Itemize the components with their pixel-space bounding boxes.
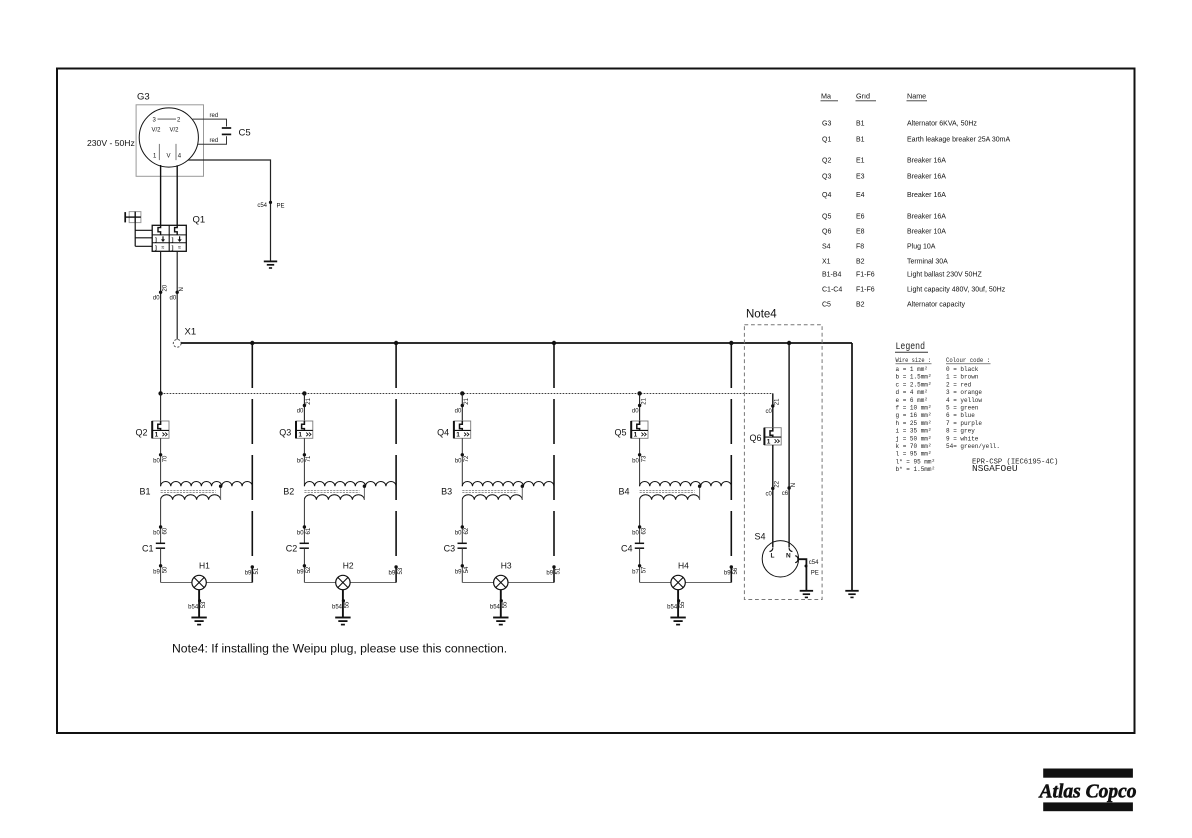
- svg-text:Breaker 16A: Breaker 16A: [907, 158, 946, 165]
- svg-text:55: 55: [503, 601, 509, 608]
- wire label 21 c0: [765, 398, 780, 415]
- svg-text:Q2: Q2: [135, 428, 147, 438]
- svg-text:d0: d0: [153, 296, 160, 302]
- wire label 55 b54 (lamp ground): [490, 601, 509, 611]
- wire Q1 right pole down to X1: [176, 251, 178, 339]
- svg-text:60: 60: [162, 527, 168, 534]
- svg-text:d0: d0: [632, 409, 639, 415]
- svg-text:b0: b0: [632, 459, 639, 465]
- svg-text:C1: C1: [142, 544, 154, 554]
- svg-text:V/2: V/2: [170, 128, 180, 134]
- svg-text:k = 70 mm²: k = 70 mm²: [896, 443, 932, 450]
- Q1 test button symbol: [125, 212, 141, 223]
- svg-text:N: N: [791, 483, 797, 487]
- earth leakage breaker Q1: [152, 215, 205, 252]
- wire label 73 b0: [632, 455, 647, 465]
- wire label N c6: [782, 483, 797, 497]
- wire label 21 d0 (branch 2 feed): [297, 397, 312, 414]
- svg-text:9 = white: 9 = white: [946, 435, 979, 442]
- svg-text:l = 95 mm²: l = 95 mm²: [896, 451, 932, 458]
- svg-text:55: 55: [345, 601, 351, 608]
- svg-text:E6: E6: [856, 213, 865, 220]
- svg-text:6 = blue: 6 = blue: [946, 412, 975, 419]
- top bus wire (N): [181, 342, 852, 344]
- svg-text:Note4: Note4: [746, 309, 777, 321]
- svg-text:21: 21: [641, 397, 647, 404]
- svg-text:red: red: [210, 113, 219, 119]
- wire Q1 left pole down to bus junction: [160, 251, 162, 393]
- svg-text:b54: b54: [188, 605, 199, 611]
- svg-text:H4: H4: [678, 561, 689, 571]
- svg-text:Q3: Q3: [822, 174, 831, 181]
- svg-text:b* = 1.5mm²: b* = 1.5mm²: [896, 466, 936, 473]
- svg-text:H3: H3: [501, 561, 512, 571]
- svg-text:E3: E3: [856, 174, 865, 181]
- svg-text:V/2: V/2: [152, 128, 162, 134]
- svg-text:V: V: [167, 154, 171, 160]
- svg-text:54: 54: [464, 566, 470, 573]
- wire label 70 b0: [153, 455, 168, 465]
- svg-text:b9: b9: [245, 571, 252, 577]
- svg-text:red: red: [210, 138, 219, 144]
- capacitor C5: [222, 128, 251, 139]
- plug S4: [755, 532, 799, 578]
- svg-text:B1: B1: [856, 121, 865, 128]
- svg-text:Q6: Q6: [822, 228, 831, 235]
- svg-text:Light ballast 230V 50HZ: Light ballast 230V 50HZ: [907, 271, 982, 278]
- svg-text:54= green/yell.: 54= green/yell.: [946, 443, 1000, 450]
- wire label 61 b0: [297, 527, 312, 537]
- svg-text:d0: d0: [170, 296, 177, 302]
- svg-text:7 = purple: 7 = purple: [946, 420, 982, 427]
- svg-text:Alternator 6KVA, 50Hz: Alternator 6KVA, 50Hz: [907, 121, 977, 128]
- svg-text:]: ]: [172, 238, 174, 244]
- alternator G3: [136, 92, 203, 177]
- svg-text:Light capacity 480V, 30uf, 50H: Light capacity 480V, 30uf, 50Hz: [907, 286, 1006, 293]
- svg-text:b0: b0: [297, 531, 304, 537]
- svg-text:h = 25 mm²: h = 25 mm²: [896, 420, 932, 427]
- svg-text:b0: b0: [153, 531, 160, 537]
- wire label 63 b0: [632, 527, 647, 537]
- ground (bus right end): [845, 591, 858, 598]
- svg-text:b7: b7: [632, 570, 639, 576]
- ground (S4 PE): [800, 591, 813, 598]
- svg-text:PE: PE: [277, 204, 285, 210]
- breaker Q6: [749, 428, 781, 446]
- svg-text:230V - 50Hz: 230V - 50Hz: [87, 138, 135, 148]
- svg-text:4 = yellow: 4 = yellow: [946, 397, 982, 404]
- svg-text:H2: H2: [343, 561, 354, 571]
- wire bus to Q6: [772, 393, 774, 427]
- svg-text:73: 73: [641, 455, 647, 462]
- svg-text:Grıd: Grıd: [856, 92, 870, 101]
- svg-text:Q3: Q3: [279, 428, 291, 438]
- svg-text:d0: d0: [455, 409, 462, 415]
- svg-text:Plug 10A: Plug 10A: [907, 243, 936, 250]
- svg-text:Q4: Q4: [437, 428, 449, 438]
- svg-text:B2: B2: [283, 487, 294, 497]
- svg-text:a = 1 mm²: a = 1 mm²: [896, 366, 928, 373]
- svg-text:Q1: Q1: [193, 215, 206, 226]
- svg-text:Breaker 10A: Breaker 10A: [907, 228, 946, 235]
- svg-text:b0: b0: [153, 459, 160, 465]
- svg-text:≈: ≈: [162, 245, 165, 251]
- branch 3 circuit: [454, 341, 556, 625]
- wire label 57 b7: [632, 566, 647, 576]
- svg-text:8 = grey: 8 = grey: [946, 428, 975, 435]
- wire right end of bus down to ground: [851, 343, 853, 591]
- svg-text:b54: b54: [667, 605, 678, 611]
- svg-text:b54: b54: [490, 605, 501, 611]
- svg-text:S4: S4: [822, 243, 831, 250]
- svg-text:Q4: Q4: [822, 192, 831, 199]
- svg-text:l* = 95 mm²: l* = 95 mm²: [896, 458, 936, 465]
- wire S4 PE to ground: [799, 559, 807, 591]
- svg-text:21: 21: [464, 397, 470, 404]
- svg-text:G3: G3: [822, 121, 831, 128]
- wire label 53 b54 (lamp ground): [188, 601, 207, 611]
- svg-text:57: 57: [641, 566, 647, 573]
- svg-text:Note4: If installing the Weipu: Note4: If installing the Weipu plug, ple…: [172, 642, 507, 656]
- svg-text:d0: d0: [297, 409, 304, 415]
- svg-text:]: ]: [155, 238, 157, 244]
- svg-text:c = 2.5mm²: c = 2.5mm²: [896, 381, 932, 388]
- svg-text:b9: b9: [153, 570, 160, 576]
- svg-text:b9: b9: [724, 571, 731, 577]
- svg-text:S4: S4: [755, 532, 766, 542]
- wire label 62 b0: [455, 527, 470, 537]
- svg-text:Wire size :: Wire size :: [896, 357, 932, 364]
- svg-text:N: N: [786, 553, 791, 560]
- svg-text:B1-B4: B1-B4: [822, 271, 842, 278]
- svg-text:H1: H1: [199, 561, 210, 571]
- svg-text:20: 20: [162, 284, 168, 291]
- svg-text:Alternator capacity: Alternator capacity: [907, 301, 965, 308]
- svg-text:Name: Name: [907, 92, 926, 101]
- component table: [821, 92, 1011, 309]
- svg-text:e = 6 mm²: e = 6 mm²: [896, 397, 928, 404]
- branch 4 circuit: [631, 341, 733, 625]
- svg-text:Colour code :: Colour code :: [946, 357, 990, 364]
- wire label 55 b54 (lamp ground): [332, 601, 351, 611]
- wire label 51 b9 (return): [245, 567, 260, 577]
- svg-text:f = 10 mm²: f = 10 mm²: [896, 405, 932, 412]
- svg-text:2 = red: 2 = red: [946, 381, 972, 388]
- svg-text:B2: B2: [856, 258, 865, 265]
- svg-text:63: 63: [641, 527, 647, 534]
- page border frame: [57, 69, 1135, 734]
- svg-text:i = 35 mm²: i = 35 mm²: [896, 428, 932, 435]
- wire label 53 b9 (return): [389, 567, 404, 577]
- svg-text:N: N: [179, 287, 185, 291]
- second bus wire (dashed distribution): [161, 392, 773, 394]
- wire label 21 d0 (branch 3 feed): [455, 397, 470, 414]
- svg-text:Ma: Ma: [821, 92, 831, 101]
- svg-text:Q6: Q6: [749, 433, 761, 443]
- svg-text:Q5: Q5: [614, 428, 626, 438]
- svg-text:b54: b54: [332, 605, 343, 611]
- wire label 60 b0: [153, 527, 168, 537]
- svg-text:Atlas Copco: Atlas Copco: [1038, 782, 1137, 803]
- label c54 PE: [257, 201, 284, 210]
- svg-text:b = 1.5mm²: b = 1.5mm²: [896, 374, 932, 381]
- svg-text:NSGAFOeU: NSGAFOeU: [972, 463, 1018, 474]
- svg-text:b9: b9: [389, 571, 396, 577]
- svg-text:0 = black: 0 = black: [946, 366, 979, 373]
- svg-text:d = 4 mm²: d = 4 mm²: [896, 389, 928, 396]
- svg-text:B2: B2: [856, 301, 865, 308]
- svg-text:70: 70: [162, 455, 168, 462]
- svg-text:F1-F6: F1-F6: [856, 286, 875, 293]
- branch 2 circuit: [296, 341, 398, 625]
- wire G3 to PE ground: [188, 160, 271, 261]
- wire bus N to plug S4: [788, 343, 790, 548]
- svg-text:E8: E8: [856, 228, 865, 235]
- svg-text:Breaker 16A: Breaker 16A: [907, 192, 946, 199]
- svg-text:g = 16 mm²: g = 16 mm²: [896, 412, 932, 419]
- wire label 55 b54 (lamp ground): [667, 601, 686, 611]
- svg-text:B3: B3: [441, 487, 452, 497]
- svg-text:55: 55: [680, 601, 686, 608]
- svg-text:C5: C5: [822, 301, 831, 308]
- wire label N d0: [170, 287, 185, 301]
- Atlas Copco logo: [1038, 769, 1137, 812]
- svg-text:56: 56: [733, 567, 739, 574]
- svg-text:B4: B4: [618, 487, 629, 497]
- svg-text:b0: b0: [297, 459, 304, 465]
- svg-text:21: 21: [775, 398, 781, 405]
- svg-text:F8: F8: [856, 243, 864, 250]
- svg-text:3 = orange: 3 = orange: [946, 389, 982, 396]
- svg-text:5 = green: 5 = green: [946, 405, 979, 412]
- svg-text:22: 22: [775, 480, 781, 487]
- svg-text:b9: b9: [455, 570, 462, 576]
- svg-text:53: 53: [398, 567, 404, 574]
- svg-text:E4: E4: [856, 192, 865, 199]
- wire label 56 b9 (return): [724, 567, 739, 577]
- svg-text:C5: C5: [239, 128, 251, 139]
- svg-text:72: 72: [464, 455, 470, 462]
- svg-text:Earth leakage breaker 25A 30mA: Earth leakage breaker 25A 30mA: [907, 137, 1010, 144]
- svg-text:c0: c0: [765, 492, 772, 498]
- wire label 52 b9: [297, 566, 312, 576]
- svg-text:1 = brown: 1 = brown: [946, 374, 979, 381]
- wire G3 left pole to Q1: [160, 165, 162, 225]
- svg-text:X1: X1: [822, 258, 831, 265]
- svg-text:c54: c54: [257, 203, 267, 209]
- svg-text:F1-F6: F1-F6: [856, 271, 875, 278]
- svg-text:≈: ≈: [178, 245, 181, 251]
- svg-text:B1: B1: [139, 487, 150, 497]
- svg-text:j = 50 mm²: j = 50 mm²: [896, 435, 932, 442]
- wire label 50 b9: [153, 566, 168, 576]
- svg-text:B1: B1: [856, 137, 865, 144]
- wire G3 right pole to Q1: [176, 165, 178, 225]
- svg-text:L: L: [771, 553, 775, 560]
- ground (G3 PE): [264, 261, 277, 268]
- svg-text:PE: PE: [811, 571, 819, 577]
- wire Q6 to plug S4: [772, 445, 774, 548]
- wire label 71 b0: [297, 455, 312, 465]
- wire label 22 c0: [765, 480, 780, 497]
- wire label c54 PE: [805, 560, 820, 577]
- svg-text:b0: b0: [455, 531, 462, 537]
- svg-text:G3: G3: [137, 92, 150, 103]
- svg-text:Breaker 16A: Breaker 16A: [907, 174, 946, 181]
- svg-text:Q5: Q5: [822, 213, 831, 220]
- Q1 trip linkage wires: [135, 223, 152, 247]
- svg-text:]: ]: [172, 246, 174, 252]
- svg-text:21: 21: [306, 397, 312, 404]
- wire G3 to C5 top: [193, 119, 227, 126]
- svg-text:b0: b0: [632, 531, 639, 537]
- svg-text:C1-C4: C1-C4: [822, 286, 842, 293]
- svg-text:b9: b9: [297, 570, 304, 576]
- svg-text:Breaker 16A: Breaker 16A: [907, 213, 946, 220]
- svg-text:51: 51: [254, 567, 260, 574]
- svg-text:c54: c54: [809, 560, 819, 566]
- svg-text:b9: b9: [546, 571, 553, 577]
- svg-text:C3: C3: [444, 544, 456, 554]
- Note4 dashed box: [744, 309, 822, 600]
- wire C5 bottom to G3: [198, 136, 227, 144]
- legend table: [895, 341, 1058, 474]
- branch 1 circuit: [152, 341, 254, 625]
- svg-text:53: 53: [201, 601, 207, 608]
- svg-text:62: 62: [464, 527, 470, 534]
- svg-text:Q1: Q1: [822, 137, 831, 144]
- svg-text:X1: X1: [185, 327, 197, 338]
- svg-text:C4: C4: [621, 544, 633, 554]
- svg-text:C2: C2: [286, 544, 298, 554]
- wire label 20 d0: [153, 284, 168, 301]
- svg-text:c0: c0: [765, 409, 772, 415]
- terminal X1: [173, 327, 196, 348]
- wire label 51 b9 (return): [546, 567, 561, 577]
- svg-text:50: 50: [162, 566, 168, 573]
- svg-text:71: 71: [306, 455, 312, 462]
- svg-text:51: 51: [556, 567, 562, 574]
- wire label 21 d0 (branch 4 feed): [632, 397, 647, 414]
- svg-text:52: 52: [306, 566, 312, 573]
- svg-text:Q2: Q2: [822, 158, 831, 165]
- svg-text:Terminal 30A: Terminal 30A: [907, 258, 948, 265]
- svg-text:E1: E1: [856, 158, 865, 165]
- svg-text:61: 61: [306, 527, 312, 534]
- svg-text:]: ]: [155, 246, 157, 252]
- svg-text:Legend: Legend: [896, 341, 926, 353]
- svg-text:b0: b0: [455, 459, 462, 465]
- wire label 72 b0: [455, 455, 470, 465]
- svg-text:c6: c6: [782, 491, 789, 497]
- wire label 54 b9: [455, 566, 470, 576]
